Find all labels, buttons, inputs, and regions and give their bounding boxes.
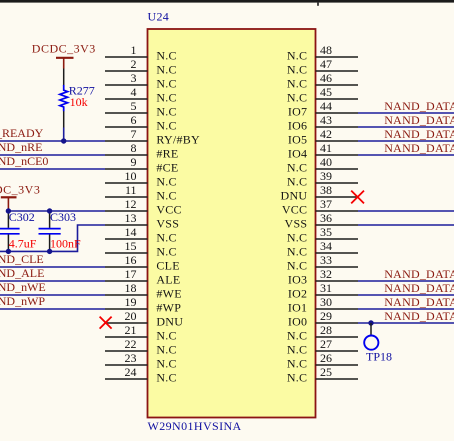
wire net NAND_DATA6 (358, 126, 454, 128)
svg-text:N.C: N.C (287, 175, 307, 189)
svg-text:13: 13 (125, 211, 137, 225)
svg-text:42: 42 (320, 127, 332, 141)
svg-text:45: 45 (320, 85, 332, 99)
pin 28 (N.C) (287, 323, 358, 343)
svg-text:C303: C303 (50, 210, 76, 224)
resistor R277 10k (60, 69, 68, 128)
junction ground rail / C302 (6, 249, 11, 254)
pin 18 (#WE) (105, 281, 182, 301)
pin 3 (N.C) (105, 71, 177, 91)
svg-text:N.C: N.C (287, 357, 307, 371)
svg-text:W29N01HVSINA: W29N01HVSINA (148, 419, 242, 433)
pin 22 (N.C) (105, 337, 177, 357)
svg-text:9: 9 (131, 155, 137, 169)
pin 44 (IO7) (288, 99, 358, 119)
test point TP18 pin (370, 323, 372, 336)
svg-text:N.C: N.C (287, 245, 307, 259)
svg-text:#WP: #WP (156, 301, 181, 315)
svg-text:NAND_DATA0: NAND_DATA0 (384, 309, 454, 323)
svg-text:26: 26 (320, 351, 332, 365)
wire net NAND_DATA1 (358, 308, 454, 310)
junction R277/NAND_READY (61, 138, 66, 143)
svg-text:31: 31 (320, 281, 332, 295)
svg-text:N.C: N.C (156, 49, 176, 63)
pin 26 (N.C) (287, 351, 358, 371)
svg-text:IO6: IO6 (288, 119, 307, 133)
wire net NAND_CLE (pin 16) (0, 266, 105, 268)
svg-text:IO0: IO0 (288, 315, 307, 329)
pin 48 (N.C) (287, 43, 358, 63)
svg-text:30: 30 (320, 295, 332, 309)
svg-text:IO4: IO4 (288, 147, 307, 161)
svg-text:10k: 10k (70, 95, 88, 109)
pin 47 (N.C) (287, 57, 358, 77)
pin 38 (DNU) (281, 183, 358, 203)
pin 43 (IO6) (288, 113, 358, 133)
wire R277 to READY net (63, 128, 65, 142)
pin 1 (N.C) (105, 43, 177, 63)
svg-text:CLE: CLE (156, 259, 179, 273)
svg-text:NAND_DATA6: NAND_DATA6 (384, 113, 454, 127)
svg-text:6: 6 (131, 113, 137, 127)
pin 34 (N.C) (287, 239, 358, 259)
svg-text:47: 47 (320, 57, 332, 71)
IC U24 body rectangle (148, 29, 316, 418)
pin 45 (N.C) (287, 85, 358, 105)
pin 7 (RY/#BY) (105, 127, 200, 147)
svg-text:39: 39 (320, 169, 332, 183)
svg-text:29: 29 (320, 309, 332, 323)
junction TP18 / NAND_DATA0 (368, 320, 373, 325)
svg-text:N.C: N.C (287, 49, 307, 63)
wire net NAND_nWE (pin 18) (0, 294, 105, 296)
svg-text:10: 10 (125, 169, 137, 183)
svg-text:27: 27 (320, 337, 332, 351)
svg-text:N.C: N.C (156, 77, 176, 91)
svg-text:N.C: N.C (156, 343, 176, 357)
pin 27 (N.C) (287, 337, 358, 357)
svg-text:12: 12 (125, 197, 137, 211)
svg-text:N.C: N.C (287, 77, 307, 91)
pin 21 (N.C) (105, 323, 177, 343)
pin 17 (ALE) (105, 267, 180, 287)
junction VCC rail / power stem / C302 (6, 208, 11, 213)
svg-text:N.C: N.C (156, 175, 176, 189)
svg-text:NAND_READY: NAND_READY (0, 126, 44, 140)
svg-text:4: 4 (131, 85, 137, 99)
svg-text:37: 37 (320, 197, 332, 211)
no-ERC marker pin 20 (100, 317, 112, 329)
svg-text:DNU: DNU (156, 315, 183, 329)
pin 25 (N.C) (287, 365, 358, 385)
svg-text:RY/#BY: RY/#BY (156, 133, 200, 147)
power port DCDC_3V3 (top) (32, 41, 96, 68)
svg-text:N.C: N.C (156, 189, 176, 203)
wire net NAND_nRE (pin 8) (0, 154, 105, 156)
pin 19 (#WP) (105, 295, 181, 315)
pin 16 (CLE) (105, 253, 180, 273)
svg-text:N.C: N.C (156, 371, 176, 385)
svg-text:19: 19 (125, 295, 137, 309)
wire net NAND_DATA7 (358, 112, 454, 114)
svg-text:DCDC_3V3: DCDC_3V3 (0, 182, 40, 196)
capacitor C303 100nF (39, 211, 61, 251)
pin 23 (N.C) (105, 351, 177, 371)
svg-text:N.C: N.C (287, 63, 307, 77)
svg-text:NAND_ALE: NAND_ALE (0, 266, 44, 280)
wire VCC pin 37 (358, 210, 454, 212)
pin 2 (N.C) (105, 57, 177, 77)
svg-text:#WE: #WE (156, 287, 181, 301)
svg-text:NAND_nRE: NAND_nRE (0, 140, 42, 154)
svg-text:43: 43 (320, 113, 332, 127)
svg-text:N.C: N.C (156, 357, 176, 371)
svg-text:24: 24 (125, 365, 137, 379)
pin 39 (N.C) (287, 169, 358, 189)
pin 41 (IO4) (288, 141, 358, 161)
svg-text:5: 5 (131, 99, 137, 113)
svg-text:N.C: N.C (287, 343, 307, 357)
svg-text:N.C: N.C (287, 259, 307, 273)
svg-text:41: 41 (320, 141, 332, 155)
svg-text:35: 35 (320, 225, 332, 239)
pin 32 (IO3) (288, 267, 358, 287)
svg-text:N.C: N.C (156, 245, 176, 259)
pin 12 (VCC) (105, 197, 182, 217)
svg-text:DNU: DNU (281, 189, 308, 203)
svg-text:NAND_nCE0: NAND_nCE0 (0, 154, 48, 168)
test point TP18 circle (364, 336, 378, 350)
svg-text:NAND_nWE: NAND_nWE (0, 280, 46, 294)
svg-text:N.C: N.C (156, 231, 176, 245)
svg-text:21: 21 (125, 323, 137, 337)
pin 15 (N.C) (105, 239, 177, 259)
svg-text:N.C: N.C (287, 231, 307, 245)
svg-text:N.C: N.C (156, 119, 176, 133)
svg-text:VCC: VCC (282, 203, 307, 217)
svg-text:IO2: IO2 (288, 287, 307, 301)
svg-text:N.C: N.C (156, 105, 176, 119)
svg-text:40: 40 (320, 155, 332, 169)
svg-text:VCC: VCC (156, 203, 181, 217)
svg-text:32: 32 (320, 267, 332, 281)
svg-text:4.7uF: 4.7uF (9, 236, 37, 250)
svg-text:48: 48 (320, 43, 332, 57)
svg-text:N.C: N.C (156, 329, 176, 343)
wire net NAND_DATA4 (358, 154, 454, 156)
svg-text:NAND_DATA7: NAND_DATA7 (384, 99, 454, 113)
wire net NAND_READY (pin 7) (0, 140, 105, 142)
svg-text:VSS: VSS (156, 217, 179, 231)
wire net NAND_nWP (pin 19) (0, 308, 105, 310)
junction VCC rail / C303 (47, 208, 52, 213)
pin 4 (N.C) (105, 85, 177, 105)
pin 20 (DNU) (105, 309, 183, 329)
capacitor C302 4.7uF (0, 211, 20, 251)
svg-text:22: 22 (125, 337, 137, 351)
svg-text:N.C: N.C (287, 329, 307, 343)
svg-text:#CE: #CE (156, 161, 178, 175)
svg-text:NAND_CLE: NAND_CLE (0, 252, 44, 266)
svg-text:N.C: N.C (287, 91, 307, 105)
svg-text:NAND_DATA3: NAND_DATA3 (384, 267, 454, 281)
wire net NAND_ALE (pin 17) (0, 280, 105, 282)
pin 24 (N.C) (105, 365, 177, 385)
pin 11 (N.C) (105, 183, 177, 203)
junction ground rail / C303 (47, 249, 52, 254)
svg-text:N.C: N.C (156, 91, 176, 105)
wire net NAND_DATA5 (358, 140, 454, 142)
svg-text:VSS: VSS (285, 217, 308, 231)
svg-text:17: 17 (125, 267, 137, 281)
svg-text:23: 23 (125, 351, 137, 365)
svg-text:ALE: ALE (156, 273, 180, 287)
svg-text:NAND_DATA1: NAND_DATA1 (384, 295, 454, 309)
pin 36 (VSS) (285, 211, 358, 231)
svg-text:NAND_DATA4: NAND_DATA4 (384, 141, 454, 155)
pin 42 (IO5) (288, 127, 358, 147)
wire net NAND_DATA2 (358, 294, 454, 296)
svg-text:16: 16 (125, 253, 137, 267)
svg-text:NAND_DATA2: NAND_DATA2 (384, 281, 454, 295)
wire VSS pin 36 (358, 224, 454, 226)
pin 35 (N.C) (287, 225, 358, 245)
wire VSS pin 13 down to capacitor ground rail (0, 225, 105, 251)
pin 6 (N.C) (105, 113, 177, 133)
svg-text:7: 7 (131, 127, 137, 141)
wire net NAND_DATA3 (358, 280, 454, 282)
pin 37 (VCC) (282, 197, 358, 217)
svg-text:TP18: TP18 (366, 349, 392, 363)
pin 33 (N.C) (287, 253, 358, 273)
svg-text:8: 8 (131, 141, 137, 155)
sheet border top edge (0, 0, 454, 3)
svg-text:11: 11 (125, 183, 137, 197)
pin 8 (#RE) (105, 141, 178, 161)
pin 9 (#CE) (105, 155, 178, 175)
svg-text:N.C: N.C (287, 161, 307, 175)
svg-text:NAND_nWP: NAND_nWP (0, 294, 45, 308)
wire net NAND_DATA0 (358, 322, 454, 324)
pin 13 (VSS) (105, 211, 179, 231)
svg-text:3: 3 (131, 71, 137, 85)
pin 30 (IO1) (288, 295, 358, 315)
svg-text:100nF: 100nF (50, 236, 81, 250)
wire net NAND_nCE0 (pin 9) (0, 168, 105, 170)
svg-text:NAND_DATA5: NAND_DATA5 (384, 127, 454, 141)
svg-text:34: 34 (320, 239, 332, 253)
sheet border tick mark (317, 3, 319, 6)
pin 5 (N.C) (105, 99, 177, 119)
svg-text:33: 33 (320, 253, 332, 267)
svg-text:IO3: IO3 (288, 273, 307, 287)
svg-text:38: 38 (320, 183, 332, 197)
svg-text:44: 44 (320, 99, 332, 113)
svg-text:IO7: IO7 (288, 105, 307, 119)
svg-text:DCDC_3V3: DCDC_3V3 (32, 41, 96, 55)
svg-text:36: 36 (320, 211, 332, 225)
svg-text:2: 2 (131, 57, 137, 71)
pin 29 (IO0) (288, 309, 358, 329)
pin 46 (N.C) (287, 71, 358, 91)
svg-text:25: 25 (320, 365, 332, 379)
svg-text:IO5: IO5 (288, 133, 307, 147)
no-ERC marker pin 38 (351, 191, 364, 204)
svg-text:15: 15 (125, 239, 137, 253)
pin 31 (IO2) (288, 281, 358, 301)
svg-text:IO1: IO1 (288, 301, 307, 315)
pin 10 (N.C) (105, 169, 177, 189)
svg-text:N.C: N.C (287, 371, 307, 385)
svg-text:14: 14 (125, 225, 137, 239)
svg-text:#RE: #RE (156, 147, 178, 161)
pin 40 (N.C) (287, 155, 358, 175)
svg-text:28: 28 (320, 323, 332, 337)
pin 14 (N.C) (105, 225, 177, 245)
svg-text:N.C: N.C (156, 63, 176, 77)
svg-text:1: 1 (131, 43, 137, 57)
svg-text:C302: C302 (9, 210, 35, 224)
power port DCDC_3V3 (decoupling) (0, 182, 40, 211)
svg-text:46: 46 (320, 71, 332, 85)
svg-text:18: 18 (125, 281, 137, 295)
svg-text:20: 20 (125, 309, 137, 323)
wire VCC rail to pin 12 (8, 210, 105, 212)
svg-text:U24: U24 (148, 9, 170, 23)
